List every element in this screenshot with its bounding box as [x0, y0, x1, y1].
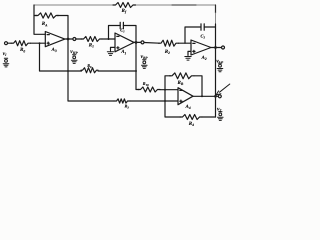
wire right column VLP to V2 and R4	[215, 5, 217, 13]
wire top feedback	[34, 4, 216, 6]
capacitor C2	[201, 24, 204, 30]
op-amp A3	[45, 32, 65, 47]
wire A3 output	[65, 38, 73, 40]
node VHP junction	[67, 38, 70, 41]
terminal V2	[218, 95, 221, 98]
resistor RA	[36, 13, 59, 18]
wire A2 output	[211, 47, 222, 49]
wire middle row to VBP column	[98, 70, 136, 72]
wire C1 feedback right	[123, 26, 136, 43]
wire RB right riser	[194, 76, 202, 97]
resistor RB	[170, 73, 195, 79]
terminal VBP	[141, 41, 144, 44]
ground under VLP	[217, 63, 223, 72]
wire A2 plus to ground	[188, 51, 191, 55]
node VLP junction	[214, 46, 217, 49]
resistor R3	[114, 99, 130, 103]
node C1 branch	[108, 38, 110, 40]
op-amp A1	[115, 33, 134, 52]
ground under VHP	[71, 55, 77, 64]
terminal VLP	[222, 46, 225, 49]
wire left vertical to A3 inverting input	[34, 5, 45, 34]
wire A1 plus to ground	[111, 47, 116, 50]
wire R4 to right column	[202, 116, 216, 118]
capacitor C1	[120, 22, 123, 28]
ground under V2	[218, 112, 224, 121]
wire R10 to A4 inverting input	[160, 89, 178, 91]
resistor Rf	[113, 3, 136, 8]
op-amp A2	[191, 40, 211, 55]
ground under Vi	[3, 58, 9, 67]
node RB at A4 output	[201, 95, 203, 97]
wire Vi to R0	[8, 42, 13, 44]
resistor R10	[138, 87, 160, 92]
wire R2 to A2 inverting input	[179, 42, 192, 44]
wire C2 feedback right	[204, 26, 215, 28]
wire A3 plus riser to middle row	[40, 43, 82, 71]
wire VHP column down	[68, 39, 114, 101]
wire R1 to A1 inverting input	[102, 38, 115, 40]
wire R4 left riser	[165, 90, 181, 117]
node at A3 plus input branch	[39, 42, 41, 44]
wire RB left riser	[165, 76, 171, 90]
wire C2 feedback left	[185, 27, 201, 43]
annotation arrow to V2 node	[220, 84, 230, 92]
wire RA feedback branch	[34, 16, 68, 40]
resistor R1	[81, 37, 102, 42]
ground at A1 noninverting input	[107, 50, 113, 55]
node R4 branch on A4 plus row	[164, 100, 166, 102]
op-amp A4	[178, 88, 193, 105]
wire R0 to A3 noninverting input	[31, 42, 46, 44]
terminal VHP	[73, 38, 76, 41]
wire VHP to R1	[76, 38, 82, 40]
wire A4 output	[193, 95, 218, 97]
ground at A2 noninverting input	[185, 55, 191, 60]
wire VBP to R2	[144, 42, 160, 45]
node RB branch on A4 minus row	[164, 89, 166, 91]
resistor R0	[11, 41, 31, 46]
node middle row at VBP column	[135, 70, 137, 72]
wire A1 output	[134, 41, 141, 43]
resistor R2	[159, 40, 179, 46]
resistor R6	[81, 68, 98, 73]
wire C1 feedback left	[109, 26, 121, 40]
ground under VBP	[142, 60, 148, 69]
node VHP column crossing middle row	[67, 70, 69, 72]
terminal Vi	[5, 42, 8, 45]
node V2 junction	[214, 95, 217, 98]
wire VBP column down	[136, 42, 139, 89]
wire R3 to A4 noninverting input	[130, 100, 178, 102]
resistor R4	[180, 115, 202, 120]
node VBP junction	[135, 41, 138, 44]
